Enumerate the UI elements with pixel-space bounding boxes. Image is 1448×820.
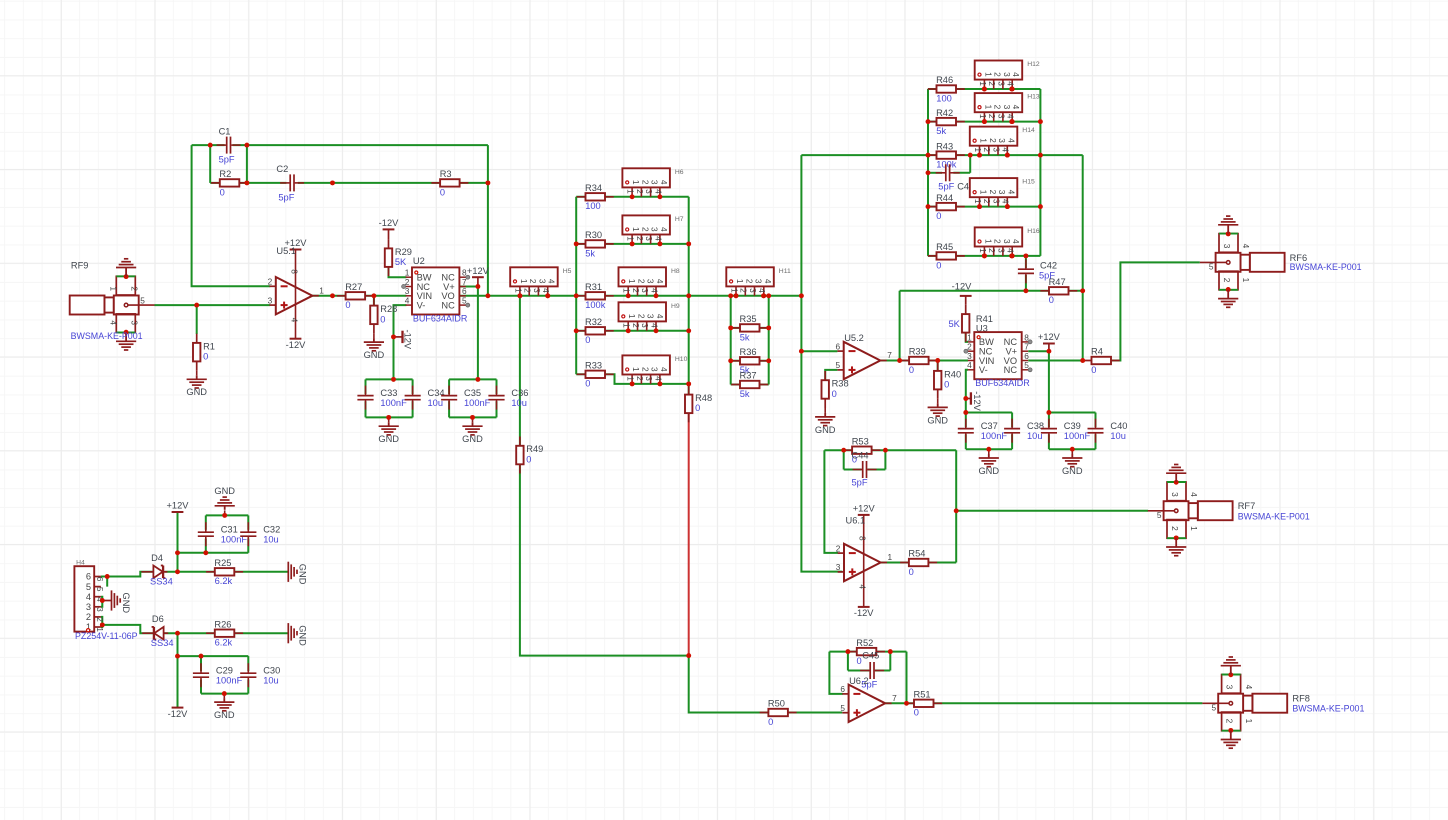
svg-text:0: 0 <box>526 454 531 464</box>
svg-text:2: 2 <box>982 147 992 152</box>
svg-text:R37: R37 <box>740 371 757 381</box>
svg-text:1: 1 <box>627 314 637 319</box>
wire H4 pin6 pin5 to D4 <box>101 577 107 587</box>
junction at 1012,122 <box>1009 119 1014 124</box>
svg-text:2: 2 <box>982 199 992 204</box>
svg-text:GND: GND <box>186 387 207 397</box>
svg-text:R29: R29 <box>395 247 412 257</box>
svg-text:H7: H7 <box>675 216 684 223</box>
svg-text:2: 2 <box>637 279 647 284</box>
svg-text:2: 2 <box>268 277 273 287</box>
svg-text:H5: H5 <box>563 268 572 275</box>
junction at 389,417 <box>386 415 391 420</box>
junction at 689,296 <box>686 293 691 298</box>
svg-text:6: 6 <box>86 572 91 582</box>
svg-text:0: 0 <box>909 365 914 375</box>
svg-text:3: 3 <box>996 81 1006 86</box>
svg-text:100k: 100k <box>585 300 606 310</box>
svg-text:2: 2 <box>637 314 647 319</box>
junction at 900,360 <box>897 358 902 363</box>
svg-text:2: 2 <box>631 288 641 293</box>
svg-text:0: 0 <box>936 211 941 221</box>
svg-text:3: 3 <box>991 147 1001 152</box>
op-amp U5.1 <box>270 285 276 287</box>
capacitor C1 <box>217 144 226 146</box>
header H13 <box>975 93 1023 112</box>
svg-text:H13: H13 <box>1027 94 1040 101</box>
capacitor C35 <box>448 386 450 395</box>
svg-text:1: 1 <box>978 81 988 86</box>
svg-text:R35: R35 <box>740 314 757 324</box>
junction at 478,379 <box>475 377 480 382</box>
svg-text:6: 6 <box>95 577 105 582</box>
svg-text:R27: R27 <box>345 282 362 292</box>
resistor R25 <box>206 571 243 573</box>
svg-text:3: 3 <box>537 279 547 284</box>
junction at 478,286 <box>475 284 480 289</box>
junction at 1049,351 <box>1046 349 1051 354</box>
wire R32 H9 row <box>576 330 689 332</box>
svg-text:3: 3 <box>1222 244 1232 249</box>
svg-text:2: 2 <box>836 543 841 553</box>
svg-text:3: 3 <box>748 288 758 293</box>
wire U5.2 inverting input <box>801 350 837 352</box>
svg-text:GND: GND <box>214 710 235 720</box>
junction at 548,296 <box>545 293 550 298</box>
wire to R50 and U6.2 +input <box>689 656 843 713</box>
svg-text:3: 3 <box>644 236 654 241</box>
svg-text:2: 2 <box>86 612 91 622</box>
svg-text:1: 1 <box>979 138 989 143</box>
power -12V for R41 <box>965 296 967 305</box>
junction at 1012,256 <box>1009 253 1014 258</box>
junction at 906,703 <box>904 701 909 706</box>
svg-text:C36: C36 <box>511 388 528 398</box>
header H6 <box>622 168 670 187</box>
capacitor C45 <box>860 670 869 672</box>
op-amp U6.2 <box>842 693 848 695</box>
svg-text:H15: H15 <box>1022 179 1035 186</box>
svg-text:4: 4 <box>1001 199 1011 204</box>
svg-text:2: 2 <box>1170 526 1180 531</box>
junction at 1040,155 <box>1038 153 1043 158</box>
connector RF9 BWSMA-KE-P001 <box>70 296 105 315</box>
op-amp U6.1 <box>838 552 844 554</box>
svg-text:3: 3 <box>1225 685 1235 690</box>
junction at 848,652 <box>845 649 850 654</box>
power -12V tap on U3 V- net <box>966 398 971 400</box>
wire R35 row <box>731 327 769 329</box>
svg-text:4: 4 <box>1006 248 1016 253</box>
svg-text:0: 0 <box>695 403 700 413</box>
ground below C29 C30 <box>223 698 225 702</box>
svg-text:C31: C31 <box>221 524 238 534</box>
wire R34 H6 row <box>576 196 689 198</box>
header H5 <box>510 267 558 286</box>
svg-text:C32: C32 <box>263 524 280 534</box>
capacitor C39 <box>1048 419 1050 428</box>
svg-text:BUF634AIDR: BUF634AIDR <box>413 313 468 323</box>
svg-text:5: 5 <box>95 587 105 592</box>
svg-text:2: 2 <box>993 105 1003 110</box>
svg-text:1: 1 <box>1189 526 1199 531</box>
capacitor C30 <box>247 663 249 672</box>
svg-text:0: 0 <box>768 717 773 727</box>
svg-text:1: 1 <box>973 147 983 152</box>
svg-text:10u: 10u <box>263 676 279 686</box>
svg-text:1: 1 <box>1244 719 1254 724</box>
ground for C37 C38 <box>988 454 990 458</box>
svg-text:10u: 10u <box>1110 431 1126 441</box>
wire resistor block right rail <box>1039 89 1041 256</box>
wire R42 H13 row <box>928 121 1040 123</box>
svg-text:R39: R39 <box>909 347 926 357</box>
wire right rail H6-H10 <box>688 197 690 384</box>
svg-text:1: 1 <box>631 227 641 232</box>
power +12V top <box>172 511 184 513</box>
wire R33 H10 row <box>576 374 689 384</box>
svg-text:3: 3 <box>650 180 660 185</box>
resistor R42 <box>928 121 965 123</box>
junction at 689,244 <box>686 241 691 246</box>
wire RF7 feed <box>956 510 1148 512</box>
svg-text:2: 2 <box>640 180 650 185</box>
capacitor C31 <box>205 522 207 531</box>
svg-text:0: 0 <box>909 567 914 577</box>
svg-text:2: 2 <box>993 239 1003 244</box>
svg-text:R47: R47 <box>1049 277 1066 287</box>
svg-text:3: 3 <box>996 248 1006 253</box>
svg-text:4: 4 <box>1006 114 1016 119</box>
resistor R38 <box>824 371 826 408</box>
resistor R32 <box>577 330 614 332</box>
svg-text:2: 2 <box>631 323 641 328</box>
svg-text:8: 8 <box>858 536 868 541</box>
svg-text:1: 1 <box>973 199 983 204</box>
resistor R1 <box>196 334 198 371</box>
wire C29 C30 rail top <box>178 655 249 657</box>
svg-text:4: 4 <box>653 189 663 194</box>
diode D4 SS34 <box>141 571 167 573</box>
svg-text:NC: NC <box>1004 365 1018 375</box>
svg-text:4: 4 <box>757 288 767 293</box>
junction at 801,296 <box>799 293 804 298</box>
svg-text:2: 2 <box>1222 278 1232 283</box>
svg-text:0: 0 <box>914 708 919 718</box>
svg-text:RF7: RF7 <box>1238 501 1256 511</box>
svg-text:3: 3 <box>1002 105 1012 110</box>
power -12V bottom <box>172 707 184 709</box>
power -12V for R29 <box>388 229 390 239</box>
capacitor C36 <box>496 386 498 395</box>
svg-text:GND: GND <box>298 564 308 585</box>
svg-text:5: 5 <box>140 296 145 306</box>
wire R49 to U6.2 net <box>520 464 689 656</box>
svg-text:4: 4 <box>541 288 551 293</box>
capacitor C41 <box>936 172 945 174</box>
svg-text:GND: GND <box>298 625 308 646</box>
junction at 178,633 <box>175 631 180 636</box>
svg-text:4: 4 <box>547 279 557 284</box>
resistor R29 <box>388 239 390 276</box>
junction at 102,600 <box>100 598 105 603</box>
capacitor C34 <box>412 386 414 395</box>
resistor R33 <box>577 373 614 375</box>
svg-text:4: 4 <box>86 592 91 602</box>
svg-text:GND: GND <box>378 434 399 444</box>
junction at 225,515 <box>222 513 227 518</box>
wire U3 V- net <box>966 370 968 413</box>
svg-text:4: 4 <box>659 227 669 232</box>
ground right of R25 <box>287 562 289 582</box>
wire R39 to U3 VIN <box>928 360 968 362</box>
resistor R36 <box>731 360 768 362</box>
capacitor C29 <box>200 663 202 672</box>
resistor R34 <box>577 196 614 198</box>
wire +12V stem <box>177 512 179 572</box>
svg-text:1: 1 <box>983 72 993 77</box>
junction at 247,183 <box>244 180 249 185</box>
svg-text:R1: R1 <box>203 341 215 351</box>
svg-text:R38: R38 <box>832 379 849 389</box>
svg-text:+12V: +12V <box>1038 332 1061 342</box>
svg-text:H14: H14 <box>1022 127 1035 134</box>
svg-text:6.2k: 6.2k <box>215 576 233 586</box>
resistor R52 <box>848 651 885 653</box>
wire C44 loop <box>843 450 845 469</box>
svg-text:0: 0 <box>585 335 590 345</box>
svg-text:4: 4 <box>1189 492 1199 497</box>
svg-text:1: 1 <box>626 189 636 194</box>
junction at 731,296 <box>728 293 733 298</box>
svg-text:3: 3 <box>996 114 1006 119</box>
svg-text:1: 1 <box>622 288 632 293</box>
header H12 <box>975 61 1023 80</box>
wire R4 to RF6 <box>1111 262 1200 360</box>
svg-text:4: 4 <box>1241 244 1251 249</box>
svg-text:4: 4 <box>1244 685 1254 690</box>
svg-text:2: 2 <box>1225 719 1235 724</box>
svg-text:0: 0 <box>1091 365 1096 375</box>
svg-text:5pF: 5pF <box>219 154 235 164</box>
wire R1 drop <box>196 305 198 334</box>
svg-text:3: 3 <box>650 227 660 232</box>
svg-text:-12V: -12V <box>403 330 413 350</box>
wire U2 V+ +12V <box>459 286 478 288</box>
svg-text:2: 2 <box>640 367 650 372</box>
svg-text:1: 1 <box>983 239 993 244</box>
junction at 966,412 <box>963 410 968 415</box>
svg-text:2: 2 <box>987 81 997 86</box>
svg-text:6: 6 <box>840 684 845 694</box>
ground right of R26 <box>287 623 289 643</box>
svg-text:6: 6 <box>835 341 840 351</box>
svg-text:R42: R42 <box>936 108 953 118</box>
junction at 472,417 <box>470 415 475 420</box>
svg-text:4: 4 <box>109 320 119 325</box>
svg-text:R32: R32 <box>585 317 602 327</box>
resistor R45 <box>928 255 965 257</box>
svg-text:R33: R33 <box>585 361 602 371</box>
svg-text:0: 0 <box>936 260 941 270</box>
junction at 178,656 <box>175 654 180 659</box>
svg-text:4: 4 <box>659 180 669 185</box>
svg-text:0: 0 <box>380 314 385 324</box>
svg-text:3: 3 <box>646 314 656 319</box>
resistor R44 <box>928 206 965 208</box>
capacitor C2 <box>280 182 289 184</box>
connector RF8 BWSMA-KE-P001 <box>1252 694 1287 713</box>
svg-text:U5.2: U5.2 <box>844 333 864 343</box>
wire U6.1 output row <box>881 562 909 564</box>
svg-text:+12V: +12V <box>167 501 190 511</box>
wire U2 VO output <box>459 295 488 297</box>
svg-text:R28: R28 <box>380 304 397 314</box>
wire feedback top net <box>192 144 225 146</box>
svg-text:C1: C1 <box>219 126 231 136</box>
svg-text:R53: R53 <box>852 436 869 446</box>
wire R44 H15 row <box>928 206 1040 208</box>
svg-text:C35: C35 <box>464 388 481 398</box>
svg-text:1: 1 <box>622 323 632 328</box>
svg-text:R34: R34 <box>585 183 602 193</box>
IC U2 BUF634AIDR <box>412 267 459 314</box>
svg-text:R44: R44 <box>936 193 953 203</box>
svg-text:0: 0 <box>944 380 949 390</box>
svg-text:2: 2 <box>130 286 140 291</box>
junction at 689,384 <box>686 381 691 386</box>
svg-text:2: 2 <box>635 236 645 241</box>
junction at 928,122 <box>926 119 931 124</box>
resistor R35 <box>731 327 768 329</box>
svg-text:C33: C33 <box>380 388 397 398</box>
wire R36 row <box>731 360 769 362</box>
svg-text:GND: GND <box>978 466 999 476</box>
svg-text:3: 3 <box>836 562 841 572</box>
wire H11 ladder right rail <box>768 296 770 385</box>
svg-text:0: 0 <box>440 187 445 197</box>
svg-text:R50: R50 <box>768 699 785 709</box>
header H8 <box>619 267 667 286</box>
wire C37 C38 loop <box>965 413 967 428</box>
wire R45 H16 row <box>928 255 1040 257</box>
ground for R40 <box>937 403 939 407</box>
svg-text:5pF: 5pF <box>938 182 954 192</box>
wire C39 C40 loop <box>1048 413 1050 428</box>
junction at 1007,207 <box>1005 204 1010 209</box>
svg-text:3: 3 <box>1002 239 1012 244</box>
IC U3 BUF634AIDR <box>974 332 1021 379</box>
junction at 689,656 <box>686 653 691 658</box>
wire C41 row <box>928 172 942 174</box>
svg-text:R3: R3 <box>440 169 452 179</box>
svg-text:C30: C30 <box>263 665 280 675</box>
resistor R37 <box>731 384 768 386</box>
svg-text:5: 5 <box>1157 510 1162 520</box>
svg-text:100nF: 100nF <box>981 431 1008 441</box>
capacitor C33 <box>365 386 367 395</box>
header H7 <box>622 215 670 234</box>
svg-text:2: 2 <box>95 617 105 622</box>
wire +12V drop to C39 loop <box>1048 351 1050 412</box>
junction at 928,173 <box>926 170 931 175</box>
svg-text:-12V: -12V <box>168 709 188 719</box>
connector RF7 BWSMA-KE-P001 <box>1198 501 1233 520</box>
svg-text:3: 3 <box>130 320 140 325</box>
svg-text:10u: 10u <box>1027 431 1043 441</box>
ground for R28 <box>373 338 375 342</box>
wire to U5.1 inverting input <box>192 145 271 286</box>
svg-text:3: 3 <box>1170 492 1180 497</box>
junction at 769,296 <box>766 293 771 298</box>
wire D6 to R26 GND row <box>165 632 289 634</box>
svg-text:5pF: 5pF <box>278 192 294 202</box>
svg-text:5pF: 5pF <box>852 478 868 488</box>
wire R28 drop <box>373 296 375 306</box>
connector RF6 BWSMA-KE-P001 <box>1250 253 1285 272</box>
wire -12V stem <box>177 633 179 707</box>
svg-text:+12V: +12V <box>853 504 876 514</box>
svg-text:BUF634AIDR: BUF634AIDR <box>975 378 1030 388</box>
ground for C35 C36 <box>472 422 474 426</box>
svg-text:4: 4 <box>1011 239 1021 244</box>
svg-text:3: 3 <box>997 190 1007 195</box>
svg-text:100nF: 100nF <box>464 398 491 408</box>
svg-text:H9: H9 <box>671 303 680 310</box>
wire feedback right vertical <box>487 145 489 296</box>
junction at 374,296 <box>371 293 376 298</box>
svg-text:-12V: -12V <box>379 218 399 228</box>
svg-text:GND: GND <box>927 415 948 425</box>
svg-text:4: 4 <box>290 318 300 323</box>
wire U3 VO to R4 <box>1028 360 1083 362</box>
svg-text:C44: C44 <box>852 451 869 461</box>
junction at 731,328 <box>728 325 733 330</box>
wire H4 pin4 pin3 gnd <box>101 597 102 607</box>
svg-text:5K: 5K <box>395 257 407 267</box>
svg-text:4: 4 <box>1011 72 1021 77</box>
resistor R40 <box>937 362 939 399</box>
svg-text:0: 0 <box>585 379 590 389</box>
svg-text:GND: GND <box>121 593 131 614</box>
svg-text:GND: GND <box>364 350 385 360</box>
wire H11 ladder left rail <box>730 296 732 385</box>
junction at 928,155 <box>926 153 931 158</box>
svg-text:3: 3 <box>640 323 650 328</box>
svg-text:1: 1 <box>626 236 636 241</box>
svg-text:3: 3 <box>997 138 1007 143</box>
svg-text:4: 4 <box>649 288 659 293</box>
wire right rail to R48 <box>688 384 690 395</box>
svg-text:3: 3 <box>754 279 764 284</box>
svg-text:R49: R49 <box>526 444 543 454</box>
power -12V tap on U2 V- net <box>394 336 403 338</box>
resistor R26 <box>206 632 243 634</box>
resistor R51 <box>905 702 942 704</box>
wire U6.2 output to R51 <box>885 702 914 704</box>
wire resistor block left rail <box>927 89 929 256</box>
resistor R41 <box>965 305 967 342</box>
svg-text:100nF: 100nF <box>216 676 243 686</box>
svg-text:3: 3 <box>650 367 660 372</box>
svg-text:3: 3 <box>1002 72 1012 77</box>
resistor R50 <box>760 712 797 714</box>
wire RF9 input net <box>155 304 271 306</box>
wire to U6.1 inverting input <box>824 450 838 553</box>
resistor R47 <box>1040 290 1077 292</box>
svg-text:4: 4 <box>1001 147 1011 152</box>
resistor R3 <box>431 182 468 184</box>
